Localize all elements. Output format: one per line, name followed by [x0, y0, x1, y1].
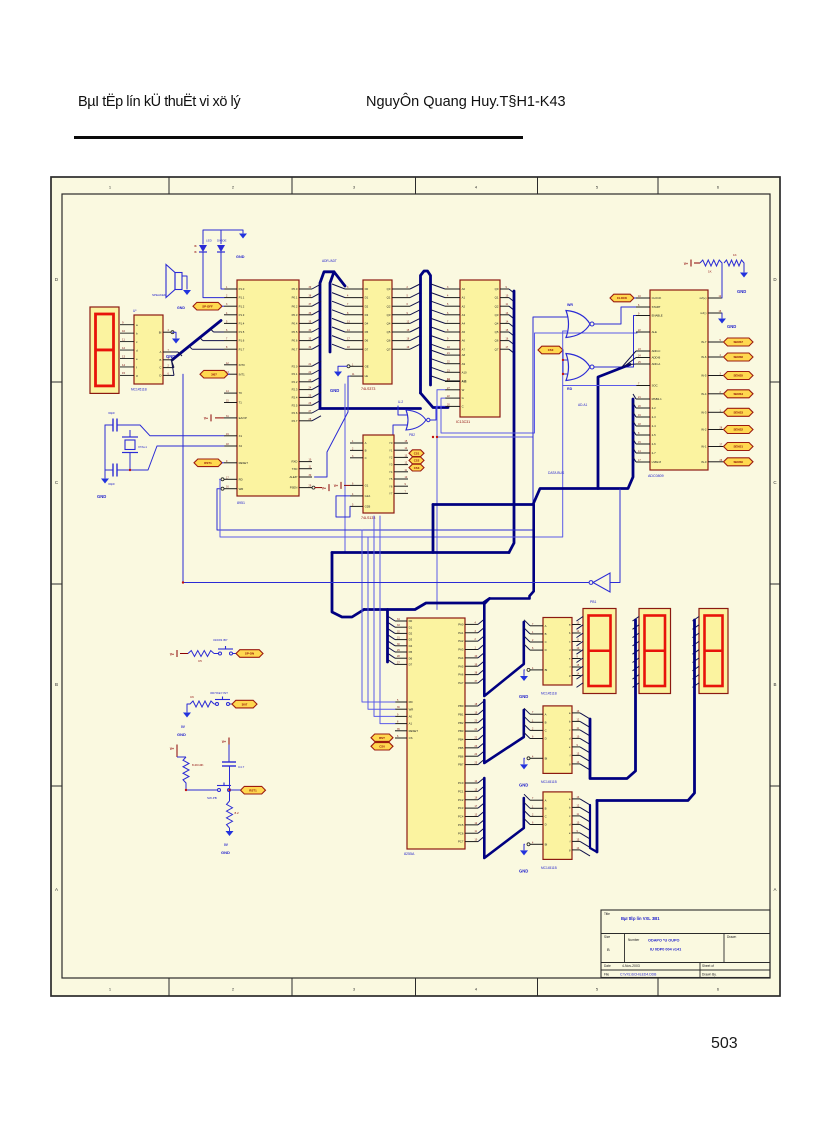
svg-text:BI: BI	[545, 842, 548, 846]
DS2 pin hatches	[633, 617, 640, 688]
U2 right pins Q0-Q7	[387, 286, 410, 351]
ground of crystal circuit	[97, 479, 109, 500]
svg-text:A12: A12	[462, 380, 467, 384]
svg-text:P1.5: P1.5	[239, 330, 245, 334]
svg-text:C: C	[545, 815, 547, 819]
svg-text:P2.7: P2.7	[292, 419, 298, 423]
svg-text:D6: D6	[365, 339, 369, 343]
svg-text:IN-6: IN-6	[701, 355, 707, 359]
svg-text:3163I3.IB7: 3163I3.IB7	[213, 638, 228, 642]
U1 left pins P1.0-P1.7	[224, 286, 245, 351]
svg-text:2-7: 2-7	[652, 451, 656, 455]
svg-text:SOC: SOC	[652, 384, 658, 388]
wire U3 G pin to ALE net	[441, 333, 637, 433]
U6 right pins PC0-PC7	[458, 780, 478, 844]
svg-text:P1.2: P1.2	[239, 304, 245, 308]
svg-text:IN-3: IN-3	[701, 410, 707, 414]
wires decoder1 outputs to DS1	[579, 625, 582, 676]
svg-text:CS0: CS0	[379, 745, 385, 749]
svg-text:D3: D3	[365, 313, 369, 317]
net label CS at U6	[371, 743, 393, 750]
svg-text:PA5: PA5	[458, 664, 464, 668]
wire crystal left rail	[104, 425, 106, 478]
svg-text:SENS4: SENS4	[734, 392, 744, 396]
svg-text:Q6: Q6	[495, 339, 499, 343]
IC U4 74LS138 decoder	[361, 435, 394, 520]
wire gate PB2 output to U3 C pin	[430, 406, 445, 420]
svg-text:G1: G1	[365, 484, 369, 488]
U8 output pins a-g	[569, 710, 580, 766]
svg-text:4-Nov-2003: 4-Nov-2003	[622, 964, 640, 968]
svg-text:V+: V+	[334, 484, 338, 488]
U4 output pins Y0-Y7	[389, 440, 408, 496]
svg-text:A1: A1	[409, 722, 413, 726]
svg-text:PB1: PB1	[458, 712, 464, 716]
svg-text:PB3: PB3	[458, 729, 464, 733]
svg-text:2-3: 2-3	[652, 415, 656, 419]
svg-text:ODAPO *U OUPO: ODAPO *U OUPO	[648, 939, 679, 943]
svg-text:G: G	[462, 396, 464, 400]
svg-text:IN-0: IN-0	[701, 460, 707, 464]
svg-text:A: A	[160, 350, 162, 354]
wire inverter input	[610, 489, 620, 583]
LED D1	[195, 239, 213, 255]
svg-text:ALE: ALE	[652, 330, 657, 334]
svg-text:PA6: PA6	[458, 673, 464, 677]
svg-text:RESET: RESET	[239, 461, 249, 465]
svg-text:GND: GND	[177, 306, 185, 310]
svg-text:D5: D5	[365, 330, 369, 334]
V+ at U4 G1	[334, 482, 350, 489]
U1 right pins P0.0-P0.7	[292, 286, 312, 351]
svg-text:1K: 1K	[733, 253, 737, 257]
svg-text:V+: V+	[222, 740, 226, 744]
net label RESET at U1 RST	[194, 459, 224, 467]
svg-text:PC3: PC3	[458, 806, 464, 810]
svg-text:RESET: RESET	[409, 729, 419, 733]
svg-text:Date: Date	[604, 964, 611, 968]
svg-text:PB5: PB5	[458, 746, 464, 750]
svg-text:A7: A7	[462, 347, 466, 351]
svg-text:RXD: RXD	[291, 460, 297, 464]
ground below R8	[221, 831, 234, 855]
net label SP-ON	[236, 650, 263, 658]
svg-text:PA7: PA7	[458, 681, 464, 685]
svg-text:12: 12	[122, 346, 126, 350]
wire R3 junction to ref+	[721, 263, 723, 298]
reset circuit V+ and R7	[170, 745, 204, 791]
svg-text:IN-1: IN-1	[701, 445, 707, 449]
bus ADBUS arch between U1 and U2	[320, 259, 345, 409]
ground after R4	[737, 273, 748, 295]
U5 left pins CLOCK START ENABLE ALE	[636, 295, 663, 334]
V+ at U1 PSEN pin	[315, 484, 330, 491]
svg-text:P2.0: P2.0	[292, 364, 298, 368]
svg-text:XTAL1: XTAL1	[138, 445, 147, 449]
U6 control pins RD WR A0 A1 RESET CS	[395, 699, 418, 740]
U7 input pins A-D and BI	[527, 623, 547, 672]
svg-text:Q5: Q5	[387, 330, 391, 334]
svg-text:15: 15	[122, 371, 126, 375]
svg-text:Q2: Q2	[387, 304, 391, 308]
svg-text:A0: A0	[462, 287, 466, 291]
svg-text:CS0: CS0	[548, 348, 554, 352]
bus U6 PA fan to decoder 1	[478, 505, 534, 697]
svg-text:74LS373: 74LS373	[361, 387, 375, 391]
wire LED to U1 P1.1	[203, 252, 224, 298]
svg-text:Y6: Y6	[389, 484, 393, 488]
svg-text:D7: D7	[409, 663, 413, 667]
svg-text:GND: GND	[97, 494, 106, 499]
svg-text:B: B	[607, 947, 610, 952]
svg-text:CS2: CS2	[414, 459, 420, 463]
wire gate PB2 inputs	[393, 406, 407, 437]
svg-text:SP-ON: SP-ON	[245, 652, 254, 656]
net label SP-OFF	[177, 302, 224, 310]
svg-text:8951: 8951	[237, 501, 245, 505]
pushbutton S1	[213, 638, 236, 655]
svg-text:IC13C31: IC13C31	[456, 420, 470, 424]
svg-text:B: B	[773, 682, 776, 687]
U5 right pins ref+ ref- IN0-IN7	[700, 295, 723, 464]
svg-text:P0.6: P0.6	[292, 339, 298, 343]
svg-text:P0.5: P0.5	[292, 330, 298, 334]
svg-text:PC7: PC7	[458, 840, 464, 844]
svg-text:GND: GND	[727, 324, 736, 329]
U5 left pins ADD-C ADD-B ADD-A SOC	[636, 348, 660, 388]
svg-text:DATA BUS: DATA BUS	[548, 471, 565, 475]
svg-text:Y7: Y7	[389, 492, 393, 496]
bus fan U1 P2 to arch	[312, 361, 321, 421]
svg-text:A6: A6	[462, 339, 466, 343]
wires U6 RD WR A0 A1 control verticals	[362, 516, 395, 724]
wire C1 to U1 X1	[105, 424, 113, 426]
ground at U9 BI	[519, 844, 528, 873]
svg-text:A: A	[545, 798, 547, 802]
svg-text:CS1: CS1	[414, 451, 420, 455]
svg-text:V+: V+	[170, 747, 174, 751]
U3 right pins Q0-Q7	[495, 286, 509, 351]
U2 left pins D0-D7	[345, 286, 369, 351]
pushbutton S2	[210, 691, 232, 706]
svg-text:Title: Title	[604, 912, 610, 916]
svg-text:P1.4: P1.4	[239, 322, 245, 326]
U7 output pins a-g	[569, 622, 580, 678]
svg-text:C:\VXL\SCH\LED4.DDB: C:\VXL\SCH\LED4.DDB	[620, 972, 657, 976]
svg-text:P1.6: P1.6	[239, 339, 245, 343]
U3 control pins W G C	[445, 379, 467, 409]
svg-text:B: B	[545, 720, 547, 724]
svg-text:A8: A8	[462, 353, 466, 357]
svg-text:PSEN: PSEN	[290, 486, 298, 490]
svg-text:3I07: 3I07	[211, 372, 217, 376]
svg-text:PC1: PC1	[458, 789, 464, 793]
capacitor C1 30pF	[108, 411, 117, 432]
resistor R5 speaker button	[170, 650, 214, 663]
svg-text:D0: D0	[365, 287, 369, 291]
svg-text:BI: BI	[545, 756, 548, 760]
svg-text:ref(+): ref(+)	[700, 296, 707, 300]
svg-text:D: D	[159, 374, 161, 378]
svg-text:T0: T0	[239, 391, 243, 395]
svg-text:ALE/P: ALE/P	[289, 475, 297, 479]
svg-text:MC14511B: MC14511B	[541, 866, 557, 870]
U6 left data pins D0-D7	[395, 618, 413, 667]
svg-text:CLOCK: CLOCK	[617, 296, 628, 300]
svg-text:PA3: PA3	[458, 648, 464, 652]
svg-text:C5: C5	[198, 659, 202, 663]
svg-text:D0: D0	[409, 619, 413, 623]
svg-text:ADD-B: ADD-B	[652, 356, 661, 360]
svg-text:U-2: U-2	[398, 400, 403, 404]
svg-text:Q4: Q4	[387, 322, 391, 326]
svg-text:BI: BI	[159, 330, 162, 334]
svg-text:Q4: Q4	[495, 322, 499, 326]
U6 right pins PB0-PB7	[458, 703, 478, 767]
svg-text:D1: D1	[365, 296, 369, 300]
svg-text:MC14511B: MC14511B	[541, 692, 557, 696]
svg-text:RST1: RST1	[249, 788, 257, 792]
svg-text:SENS2: SENS2	[734, 428, 744, 432]
svg-text:EA/VP: EA/VP	[239, 416, 247, 420]
net label CS3	[409, 464, 424, 471]
svg-text:3I07: 3I07	[242, 702, 248, 706]
7-segment display DS0	[90, 307, 119, 393]
svg-text:P2.5: P2.5	[292, 403, 298, 407]
svg-text:RD: RD	[567, 387, 573, 391]
svg-text:PB7: PB7	[458, 763, 464, 767]
svg-text:ENABLE: ENABLE	[652, 314, 663, 318]
svg-text:PB6: PB6	[458, 754, 464, 758]
svg-text:A9: A9	[462, 362, 466, 366]
bus DATA main run	[332, 399, 633, 617]
svg-text:GND: GND	[236, 255, 245, 259]
net label 3I07 at button	[232, 700, 257, 708]
bus fan U1 P0 to arch	[312, 284, 321, 349]
IC U7 74LS47 decoder #1	[541, 618, 572, 696]
svg-text:8255A: 8255A	[404, 852, 415, 856]
svg-text:P2.3: P2.3	[292, 388, 298, 392]
svg-text:74LS138: 74LS138	[361, 516, 375, 520]
wire from U2 LE area down to control bus	[344, 384, 346, 552]
svg-text:CS: CS	[409, 736, 413, 740]
svg-text:Q0: Q0	[387, 287, 391, 291]
svg-text:MC14511B: MC14511B	[541, 780, 557, 784]
svg-text:B: B	[545, 806, 547, 810]
svg-text:PA1: PA1	[458, 631, 464, 635]
pushbutton S3 reset	[186, 783, 231, 801]
svg-text:Q5: Q5	[495, 330, 499, 334]
svg-text:SENS7: SENS7	[734, 340, 744, 344]
svg-text:Q7: Q7	[495, 347, 499, 351]
svg-text:ADR./ADT: ADR./ADT	[322, 259, 337, 263]
resistor R6 int button	[190, 695, 214, 707]
svg-text:GND: GND	[221, 850, 230, 855]
bus U6 D-pin fan to vertical	[388, 610, 396, 665]
svg-text:A5: A5	[462, 330, 466, 334]
svg-text:Q2: Q2	[495, 304, 499, 308]
svg-text:ref(-): ref(-)	[700, 311, 706, 315]
wire U5 SOC	[563, 385, 636, 387]
U2 OE LE pins	[347, 363, 369, 378]
svg-text:OE: OE	[365, 364, 369, 368]
svg-text:BI: BI	[545, 668, 548, 672]
svg-text:8.2: 8.2	[235, 811, 240, 815]
svg-text:PB2: PB2	[458, 721, 464, 725]
svg-text:2-2: 2-2	[652, 406, 656, 410]
svg-text:TXD: TXD	[292, 467, 298, 471]
svg-text:D7: D7	[365, 347, 369, 351]
svg-text:B: B	[365, 449, 367, 453]
svg-text:IN-5: IN-5	[701, 374, 707, 378]
svg-text:Q3: Q3	[495, 313, 499, 317]
svg-text:GND: GND	[519, 868, 528, 873]
IC U5 ADC0809	[648, 290, 708, 478]
svg-text:BµI tËp lín VXL 3B1: BµI tËp lín VXL 3B1	[621, 916, 660, 921]
svg-text:B: B	[545, 632, 547, 636]
svg-text:IN-7: IN-7	[701, 340, 707, 344]
wire C2 to U1 X2	[105, 469, 113, 471]
svg-text:P0.0: P0.0	[292, 287, 298, 291]
svg-text:Sheet of: Sheet of	[702, 964, 714, 968]
net label CS0 to gates	[538, 346, 563, 354]
bus branch to U5 ADD pins	[598, 351, 636, 489]
bus fan U2 outputs to arch	[410, 284, 420, 349]
svg-text:A3: A3	[462, 313, 466, 317]
svg-text:P0.4: P0.4	[292, 322, 298, 326]
svg-text:SENS3: SENS3	[734, 411, 744, 415]
svg-text:File: File	[604, 972, 609, 976]
ground at ref- pin	[718, 313, 736, 329]
ground at U2 OE	[330, 366, 347, 393]
DS3 pin hatches	[693, 617, 700, 688]
bus diagonal U1 P1 to display decoder	[171, 321, 224, 376]
7-segment display DS3	[699, 609, 728, 694]
svg-text:V+: V+	[170, 652, 174, 656]
svg-text:GND: GND	[519, 782, 528, 787]
bus arch between U2 and U3	[421, 271, 449, 408]
U8 right pins A B C D and BI	[159, 329, 174, 377]
svg-text:Drawn By.: Drawn By.	[702, 972, 717, 976]
bus decoder3 outputs to DS3	[580, 620, 695, 856]
svg-text:D2: D2	[365, 304, 369, 308]
IC U3 program memory	[456, 280, 500, 424]
svg-text:GND: GND	[177, 732, 186, 737]
net label CS2	[409, 457, 424, 464]
svg-text:Y2: Y2	[389, 456, 393, 460]
NOR gate RD	[566, 354, 594, 392]
bus U3 outputs vertical	[509, 289, 514, 553]
resistor R3 at V+ to ADC ref	[684, 260, 722, 274]
svg-text:GND: GND	[519, 694, 528, 699]
svg-text:Q0: Q0	[495, 287, 499, 291]
svg-text:P0.2: P0.2	[292, 304, 298, 308]
U5 left data pins 2-1 to 2-8	[636, 396, 662, 464]
svg-text:ADD-C: ADD-C	[652, 349, 661, 353]
bus fan arch to U3 data inputs	[431, 284, 445, 381]
bus decoder2 outputs to DS2	[580, 620, 636, 779]
net label RESET at button	[231, 786, 266, 794]
svg-text:IN-2: IN-2	[701, 428, 707, 432]
svg-text:D: D	[545, 737, 547, 741]
svg-text:3I07/KEY.INT: 3I07/KEY.INT	[210, 691, 228, 695]
svg-text:RD: RD	[409, 700, 413, 704]
NOR gate WR	[566, 303, 594, 338]
capacitor C2 30pF	[108, 464, 117, 487]
svg-text:C: C	[462, 405, 464, 409]
svg-text:30pF: 30pF	[108, 482, 115, 486]
IC U8 74LS47 display decoder (left)	[131, 309, 163, 392]
bus horizontal below U2	[320, 407, 421, 410]
svg-text:B: B	[160, 358, 162, 362]
svg-text:Y4: Y4	[389, 470, 393, 474]
svg-text:D4: D4	[365, 322, 369, 326]
svg-text:30pF: 30pF	[108, 411, 115, 415]
svg-text:Q1: Q1	[495, 296, 499, 300]
wire inverter output long run	[183, 582, 589, 584]
svg-text:8.2K10K: 8.2K10K	[192, 763, 204, 767]
net labels SENS7-SENS0	[724, 338, 754, 466]
svg-text:DIODE: DIODE	[217, 239, 227, 243]
svg-text:C: C	[545, 640, 547, 644]
svg-text:Y1: Y1	[389, 448, 393, 452]
U8 input pins and display wires	[120, 321, 138, 378]
U4 enable pins G1 G2A G2B	[350, 482, 370, 508]
IC U6 8255 PPI	[404, 618, 465, 856]
svg-text:P1.1: P1.1	[239, 296, 245, 300]
svg-text:A: A	[773, 887, 776, 892]
wire diode to U1 P1.0	[221, 252, 224, 289]
svg-text:RD: RD	[239, 477, 243, 481]
svg-text:D6: D6	[409, 656, 413, 660]
svg-text:A0: A0	[409, 715, 413, 719]
svg-text:A: A	[545, 712, 547, 716]
U9 output pins a-g	[569, 796, 580, 852]
IC U2 74LS373 latch	[361, 280, 392, 391]
svg-text:B: B	[55, 682, 58, 687]
svg-text:A10: A10	[462, 370, 467, 374]
7-segment display DS2	[639, 609, 671, 694]
inverter PB1	[589, 573, 610, 604]
bus fan to U5 data pins	[633, 394, 636, 462]
svg-text:A: A	[365, 441, 367, 445]
svg-text:P2.4: P2.4	[292, 396, 298, 400]
IC U8 74LS47 decoder #2	[541, 706, 572, 784]
wire vertical from U1 area to inverter run	[182, 374, 184, 582]
svg-text:START: START	[652, 305, 661, 309]
svg-text:CLOCK: CLOCK	[652, 296, 662, 300]
svg-text:13: 13	[122, 354, 126, 358]
svg-text:G2B: G2B	[365, 505, 371, 509]
ground at U8 BI	[519, 758, 528, 787]
ground at LED rail	[236, 234, 247, 260]
svg-text:D3: D3	[409, 638, 413, 642]
svg-text:C: C	[545, 729, 547, 733]
resistor R8 to ground	[227, 790, 240, 831]
IC U9 74LS47 decoder #3	[541, 792, 572, 870]
diode D2	[217, 239, 227, 253]
bus fan arch to U2 inputs	[332, 284, 345, 349]
svg-text:Q7: Q7	[387, 347, 391, 351]
svg-text:Q3: Q3	[387, 313, 391, 317]
svg-text:SENS0: SENS0	[734, 460, 744, 464]
svg-text:LSB2-8: LSB2-8	[652, 460, 662, 464]
OR gate PB2	[398, 400, 430, 437]
svg-text:MSB2-1: MSB2-1	[652, 397, 663, 401]
svg-text:14: 14	[122, 363, 126, 367]
svg-text:PA4: PA4	[458, 656, 464, 660]
IC U1 89C51 microcontroller	[237, 280, 299, 505]
